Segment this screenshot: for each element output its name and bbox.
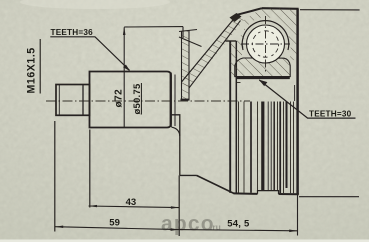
mouth wall hatch: [230, 43, 236, 77]
svg-text:ø72: ø72: [113, 89, 124, 108]
housing chamfer: [237, 8, 262, 15]
inner step line near cylinder right: [174, 75, 176, 127]
dia72 extension horizontal: [124, 26, 183, 28]
bell wall diagonal band hatched: [182, 15, 245, 89]
right shoulder hatch strip: [288, 32, 297, 62]
mouth right wall: [235, 41, 237, 193]
cage dashed circle: [249, 27, 283, 61]
flange right line: [188, 30, 190, 100]
M16 underline: [39, 39, 41, 94]
ball horizontal centerline: [241, 43, 290, 45]
svg-text:TEETH=30: TEETH=30: [309, 109, 352, 118]
band chamfer corner blob: [230, 13, 242, 22]
boot groove bottom shelf: [180, 174, 197, 176]
bell wall outer diagonal: [182, 15, 238, 83]
lower fillet cylinder to flange: [172, 127, 180, 136]
dia72 dimension line vertical: [123, 27, 125, 127]
skirt diagonal: [197, 175, 234, 193]
43 dimension line: [89, 206, 180, 208]
watermark apco.ru: [161, 213, 221, 236]
left shoulder hatch wedge: [236, 32, 244, 61]
arrow 54.5 right: [289, 230, 297, 233]
svg-text:apco: apco: [161, 213, 215, 236]
top hatch band: [244, 8, 296, 31]
extension line shared at 179: [178, 175, 180, 236]
teeth30 leader: [259, 80, 355, 118]
svg-text:M16X1.5: M16X1.5: [26, 47, 38, 93]
light blotch top left: [20, 0, 170, 9]
svg-text:43: 43: [126, 197, 137, 208]
housing right edge: [296, 9, 299, 195]
flange lip slant top: [179, 30, 197, 32]
spline relief nub: [236, 82, 240, 84]
stub left edge inner line: [58, 85, 60, 116]
ball vertical centerline: [265, 16, 267, 73]
teeth36 leader: [50, 37, 129, 71]
inner race lens hatched: [235, 58, 290, 77]
arrow teeth30 tip: [259, 80, 268, 87]
dia50.75 underline: [140, 83, 142, 115]
race bottom thick line: [236, 77, 290, 79]
arrow 59 right: [171, 228, 179, 231]
flange lip slant bottom: [179, 37, 202, 47]
threaded stub M16 body: [56, 85, 90, 116]
bell wall inner diagonal: [189, 21, 241, 89]
mouth lip cap: [226, 40, 237, 42]
arrow teeth36 tip: [123, 65, 130, 72]
arrow 43 right: [171, 206, 179, 209]
arrowheads: [55, 27, 297, 232]
svg-text:ø50.75: ø50.75: [131, 84, 142, 115]
bottom scan edge: [0, 240, 369, 242]
mouth left wall: [229, 41, 231, 193]
boot flange upper band hatched: [182, 31, 190, 100]
spline lines group: [239, 102, 294, 194]
boot groove lower step: [171, 115, 180, 176]
right side extension bottom: [299, 196, 359, 198]
cylinder body (boot seat): [90, 72, 172, 128]
59 / 54.5 dimension line: [55, 227, 298, 231]
housing right inner line: [294, 85, 296, 101]
main axis centerline: [46, 100, 250, 102]
right side extension top: [300, 9, 360, 11]
housing top edge: [262, 7, 299, 10]
flange left line: [181, 31, 183, 100]
flange neck cap: [181, 99, 190, 101]
svg-text:54, 5: 54, 5: [227, 219, 250, 230]
thread relief line: [82, 85, 84, 116]
arrow dia72 up: [123, 27, 126, 35]
ball groove arc: [242, 21, 289, 50]
cylinder right edge thick: [170, 73, 172, 128]
svg-text:59: 59: [109, 218, 120, 229]
extension line 43 left: [89, 130, 91, 208]
housing bottom edge: [234, 192, 299, 195]
flange top contact stub: [182, 27, 184, 38]
housing bottom step cap: [258, 191, 279, 194]
ball: [247, 25, 285, 63]
arrow 43 left: [89, 205, 97, 207]
extension line 54.5 right: [297, 194, 299, 235]
svg-text:TEETH=36: TEETH=36: [51, 28, 94, 37]
arrow 59 left: [55, 226, 63, 229]
extension line 59 left: [54, 121, 56, 232]
